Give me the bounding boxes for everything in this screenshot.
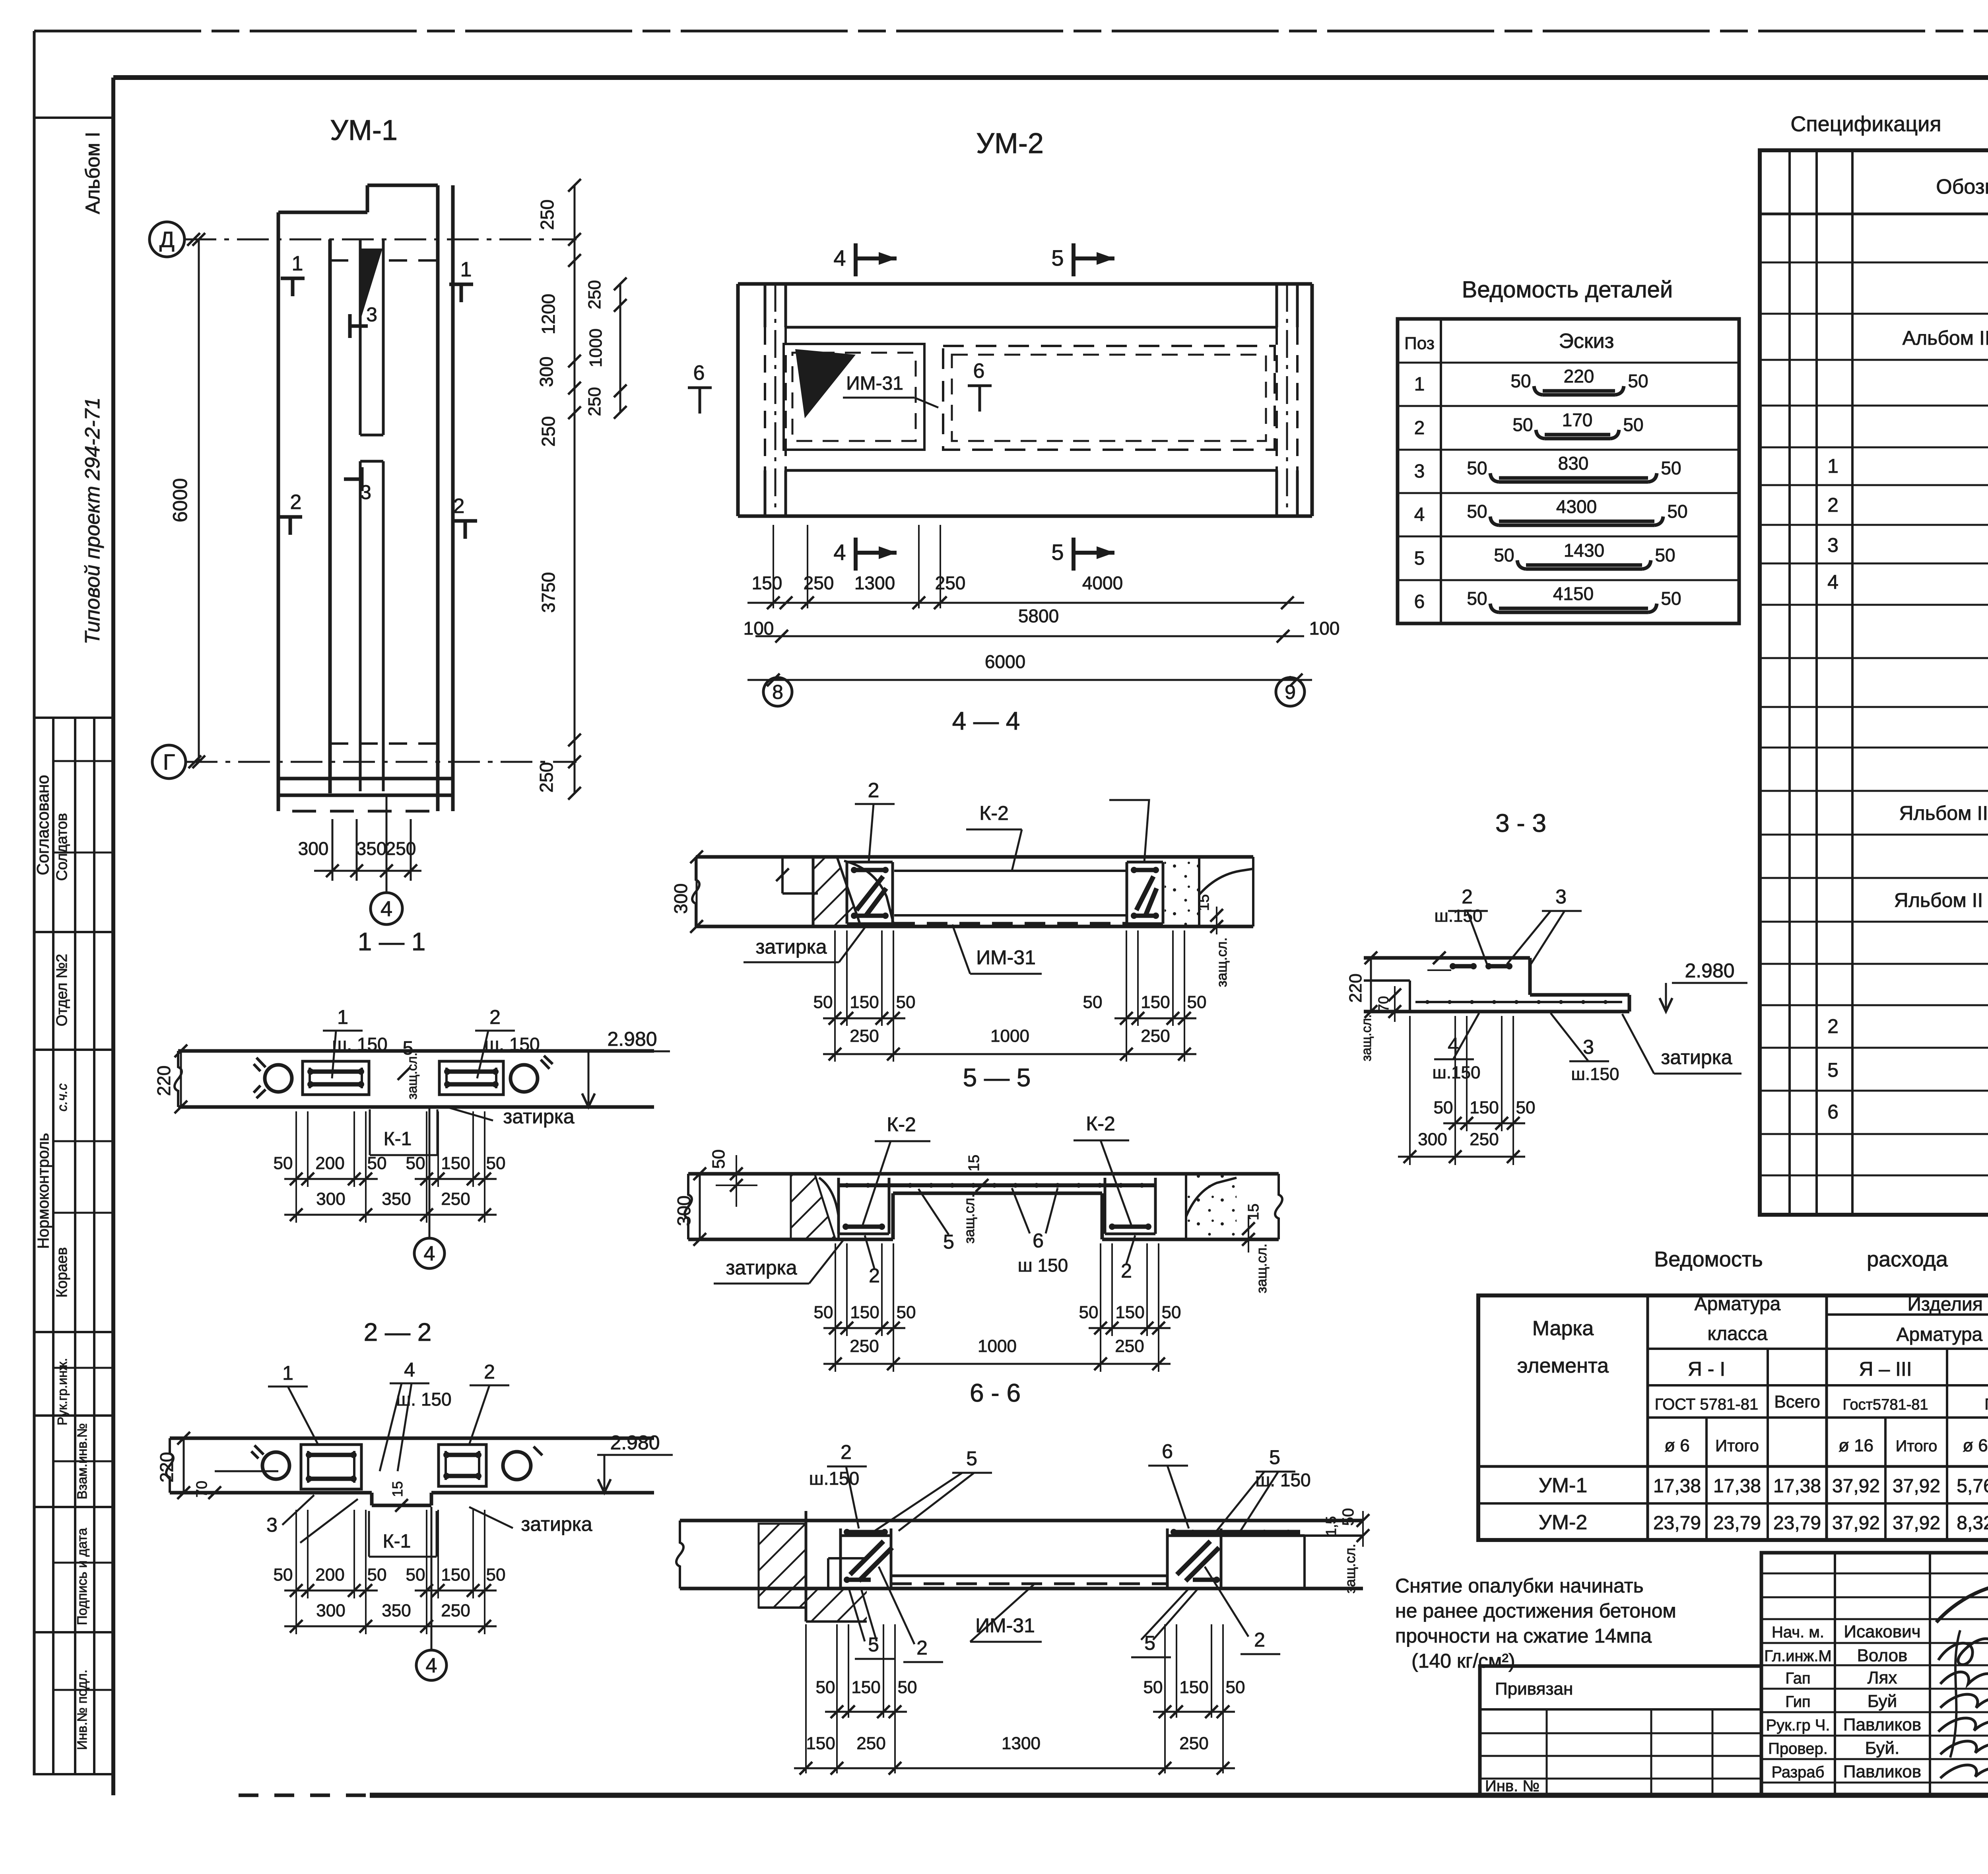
svg-text:затирка: затирка: [726, 1256, 797, 1279]
svg-text:защ.сл.: защ.сл.: [1213, 937, 1230, 987]
svg-text:15: 15: [389, 1481, 406, 1497]
svg-text:50: 50: [897, 1303, 916, 1322]
section 3-3 labels top: [1435, 886, 1582, 964]
svg-text:250: 250: [441, 1189, 470, 1209]
plan УМ-1 axis bubble 4: [371, 795, 402, 924]
svg-text:1000: 1000: [990, 1026, 1029, 1046]
section 1-1 cage K-1 left: [303, 1061, 369, 1095]
svg-text:К-2: К-2: [979, 802, 1009, 824]
svg-text:4150: 4150: [1553, 583, 1594, 604]
svg-text:2: 2: [1827, 1015, 1839, 1037]
svg-text:УМ-1: УМ-1: [330, 115, 398, 146]
svg-text:Солдатов: Солдатов: [54, 813, 70, 881]
section 2-2 slab: [166, 1438, 654, 1505]
section 1-1 labels 1 2 ш.150: [323, 1006, 540, 1078]
svg-text:1: 1: [1827, 455, 1839, 477]
svg-text:50: 50: [814, 1303, 833, 1322]
svg-text:Гл.инж.М: Гл.инж.М: [1764, 1647, 1832, 1665]
svg-text:150: 150: [1470, 1098, 1499, 1117]
svg-text:50: 50: [898, 1678, 917, 1697]
ведомость деталей row 2: [1414, 410, 1644, 439]
svg-text:Яльбом II , лист КМИЗ: Яльбом II , лист КМИЗ: [1899, 802, 1988, 824]
svg-text:4: 4: [833, 245, 846, 270]
section 1-1 axis bubble 4: [414, 1107, 445, 1268]
section 1-1 right void circle: [511, 1056, 553, 1092]
plan УМ-2 section mark 5 bottom: [1051, 538, 1114, 571]
svg-text:Буй: Буй: [1868, 1691, 1897, 1711]
svg-text:Инв.№ подл.: Инв.№ подл.: [75, 1670, 90, 1750]
svg-text:Обозначение: Обозначение: [1936, 175, 1988, 198]
plan УМ-2 title: [976, 128, 1044, 159]
dimension 6000 left of plan УМ-1: [169, 233, 205, 768]
svg-text:50: 50: [1467, 501, 1487, 522]
svg-text:6: 6: [693, 361, 705, 385]
section 1-1 label 5 защ.сл.: [398, 1038, 420, 1099]
section 5-5 dim 300 left: [674, 1167, 706, 1246]
section 1-1 slab: [175, 1051, 654, 1107]
ведомость деталей row 6: [1414, 583, 1681, 612]
svg-text:300: 300: [316, 1601, 345, 1620]
svg-text:5: 5: [1414, 548, 1425, 569]
section 4-4 left wall hatched: [813, 857, 894, 926]
plan УМ-2 opening right dashed: [943, 346, 1275, 450]
svg-text:6: 6: [1162, 1440, 1173, 1462]
svg-text:Подпись и дата: Подпись и дата: [75, 1528, 90, 1625]
svg-text:2: 2: [290, 491, 302, 514]
section 6-6 slab outline: [676, 1521, 1363, 1589]
svg-text:Д: Д: [159, 227, 175, 252]
svg-text:23,79: 23,79: [1773, 1513, 1821, 1534]
svg-text:ш.150: ш.150: [1435, 906, 1483, 926]
left margin column boxes: [34, 118, 113, 1774]
svg-text:Инв. №: Инв. №: [1485, 1777, 1540, 1795]
ведомость деталей row 4: [1414, 496, 1688, 525]
section 5-5 cage right: [1105, 1178, 1155, 1234]
svg-text:17,38: 17,38: [1713, 1476, 1761, 1497]
svg-text:не ранее достижения бетоном: не ранее достижения бетоном: [1395, 1600, 1676, 1622]
plan УМ-2 section mark 4 bottom: [833, 538, 897, 571]
svg-text:300: 300: [1418, 1130, 1447, 1149]
svg-text:150: 150: [752, 573, 782, 593]
svg-text:50: 50: [274, 1565, 293, 1585]
спецификация row 20: [1827, 1058, 1988, 1082]
svg-text:ИМ-31: ИМ-31: [846, 373, 903, 394]
svg-text:8,32: 8,32: [1957, 1513, 1988, 1534]
svg-text:ш. 150: ш. 150: [396, 1389, 451, 1410]
svg-text:Марка: Марка: [1532, 1317, 1594, 1340]
svg-text:6 - 6: 6 - 6: [970, 1379, 1021, 1407]
section 6-6 cage left: [841, 1528, 892, 1587]
plan УМ-2 opening ИМ-31: [784, 344, 938, 450]
section 1-1 dimension chains: [274, 1111, 506, 1223]
svg-text:2: 2: [1462, 886, 1473, 908]
svg-text:Разраб: Разраб: [1772, 1763, 1825, 1781]
svg-text:Типовой проект 294-2-71: Типовой проект 294-2-71: [81, 397, 104, 644]
svg-text:2.980: 2.980: [607, 1028, 657, 1050]
svg-text:Гост 5781-81: Гост 5781-81: [1984, 1396, 1988, 1413]
svg-text:1: 1: [1414, 374, 1425, 395]
svg-text:защ.сл.: защ.сл.: [405, 1053, 420, 1099]
svg-text:50: 50: [1494, 545, 1514, 565]
left margin label Инв.№ подл.: [75, 1670, 90, 1750]
axis line Д: [184, 233, 577, 246]
plan УМ-2 bottom dimension chains: [744, 525, 1340, 686]
plan УМ-1 section mark 2 right: [453, 495, 477, 539]
section 4-4 cage right: [1127, 862, 1163, 924]
svg-text:220: 220: [153, 1066, 174, 1096]
section 5-5 cage left: [839, 1178, 889, 1234]
svg-text:2: 2: [1827, 494, 1839, 516]
section 1-1 label затирка: [449, 1105, 575, 1128]
section 4-4 label К-2: [966, 802, 1022, 871]
plan УМ-1 section mark 3 lower: [344, 467, 371, 503]
svg-text:1: 1: [282, 1362, 293, 1384]
section 4-4 right leader: [1109, 800, 1149, 862]
section 4-4 middle chords and ИМ-31 plate: [894, 871, 1127, 923]
svg-text:1300: 1300: [854, 573, 895, 593]
svg-text:Арматура класса: Арматура класса: [1897, 1324, 1988, 1345]
svg-text:150: 150: [1179, 1678, 1208, 1697]
svg-text:50: 50: [274, 1154, 293, 1173]
svg-text:с.ч.с: с.ч.с: [55, 1084, 70, 1112]
спецификация row 9: [1827, 571, 1988, 594]
section 6-6 labels top: [809, 1440, 1311, 1531]
svg-text:ш 150: ш 150: [1018, 1255, 1068, 1276]
svg-text:затирка: затирка: [1661, 1046, 1732, 1068]
svg-text:5: 5: [1827, 1059, 1839, 1081]
svg-text:50: 50: [1079, 1303, 1099, 1322]
svg-text:(140 кг/см²): (140 кг/см²): [1411, 1650, 1515, 1672]
спецификация row 3: [1903, 326, 1988, 350]
ведомость расхода стали grid: [1478, 1295, 1988, 1540]
plan УМ-1 central rib: [360, 239, 383, 791]
svg-text:Нормоконтроль: Нормоконтроль: [35, 1133, 52, 1249]
svg-text:ш.150: ш.150: [1571, 1064, 1619, 1084]
svg-text:Гап: Гап: [1785, 1670, 1810, 1687]
section 2-2 cage right: [439, 1445, 486, 1486]
plan УМ-1 bottom dimension chain 300 350 250: [298, 819, 421, 881]
title block привязан table: [1480, 1666, 1761, 1795]
svg-text:1430: 1430: [1564, 540, 1604, 561]
section 6-6 right edge dims: [1323, 1508, 1369, 1594]
plan УМ-1 title: [330, 115, 398, 146]
ведомость расхода стали row УМ-1: [1539, 1474, 1988, 1497]
section 5-5 left wall hatched: [791, 1174, 839, 1239]
section 1-1 label К-1: [370, 1109, 437, 1155]
svg-text:2: 2: [1414, 418, 1425, 439]
svg-text:4: 4: [381, 897, 392, 921]
svg-text:8: 8: [772, 681, 783, 703]
svg-text:250: 250: [536, 762, 557, 793]
section 5-5 title: [963, 1063, 1031, 1092]
svg-text:6: 6: [1414, 591, 1425, 612]
section 4-4 dimension chains below: [813, 930, 1207, 1062]
svg-text:70: 70: [1375, 996, 1392, 1012]
svg-text:250: 250: [441, 1601, 470, 1620]
svg-text:3750: 3750: [538, 572, 559, 613]
svg-text:17,38: 17,38: [1773, 1476, 1821, 1497]
svg-text:Альбом I: Альбом I: [82, 132, 104, 214]
svg-text:Нач. м.: Нач. м.: [1772, 1623, 1824, 1641]
svg-text:23,79: 23,79: [1713, 1513, 1761, 1534]
section 2-2 elevation 2.980: [597, 1431, 673, 1493]
svg-text:Провер.: Провер.: [1768, 1740, 1828, 1757]
svg-text:170: 170: [1562, 410, 1593, 430]
section 4-4 label ИМ-31: [952, 924, 1042, 974]
svg-text:ø 6: ø 6: [1963, 1436, 1988, 1455]
plan УМ-2 section mark 5 top: [1051, 243, 1114, 276]
svg-text:50: 50: [1623, 414, 1643, 435]
svg-text:250: 250: [850, 1336, 879, 1356]
left margin label Альбом I: [82, 132, 104, 214]
svg-text:5: 5: [868, 1633, 879, 1656]
ведомость расхода стали row УМ-2: [1539, 1511, 1988, 1534]
section 6-6 middle chords: [891, 1576, 1167, 1584]
svg-text:150: 150: [1115, 1303, 1144, 1322]
plan УМ-2 outline: [738, 284, 1312, 516]
svg-text:50: 50: [406, 1154, 425, 1173]
svg-text:6000: 6000: [169, 478, 191, 522]
svg-text:50: 50: [1226, 1678, 1245, 1697]
svg-text:5: 5: [1269, 1446, 1280, 1468]
plan УМ-2 wall hidden verticals: [765, 284, 1297, 516]
section 6-6 cage right: [1167, 1528, 1305, 1587]
svg-text:4: 4: [1414, 504, 1425, 525]
svg-text:защ.сл.: защ.сл.: [1253, 1243, 1270, 1293]
section 5-5 dim 50 top left: [709, 1150, 757, 1207]
ведомость деталей row 1: [1414, 366, 1648, 395]
axis line Г: [186, 755, 577, 768]
svg-text:К-2: К-2: [887, 1113, 916, 1136]
section 3-3 dimension chains below: [1398, 1016, 1535, 1165]
svg-text:150: 150: [441, 1154, 470, 1173]
svg-text:4: 4: [833, 540, 846, 565]
svg-text:50: 50: [813, 992, 833, 1012]
svg-text:защ.сл.: защ.сл.: [961, 1194, 977, 1243]
section 5-5 dimension chains below: [814, 1243, 1181, 1372]
plan УМ-2 left dimension chain 250 1000 250: [585, 278, 627, 419]
svg-text:50: 50: [1187, 992, 1207, 1012]
svg-text:Привязан: Привязан: [1495, 1679, 1573, 1699]
section 3-3 elevation 2.980: [1660, 959, 1747, 1012]
svg-text:50: 50: [1512, 414, 1533, 435]
section 2-2 title: [364, 1318, 432, 1346]
svg-text:ИМ-31: ИМ-31: [975, 1614, 1035, 1637]
section 6-6 left wall hatched: [759, 1511, 867, 1622]
svg-text:Ведомость деталей: Ведомость деталей: [1462, 277, 1673, 303]
svg-text:Я - I: Я - I: [1688, 1358, 1725, 1380]
svg-text:250: 250: [850, 1026, 879, 1046]
section 3-3 drawing: [1364, 952, 1629, 1012]
plan УМ-1 right dimension chain: [536, 179, 581, 800]
section 5-5 slab outline: [685, 1174, 1282, 1239]
svg-text:300: 300: [298, 838, 329, 859]
svg-text:50: 50: [486, 1565, 506, 1585]
section 3-3 labels bottom: [1433, 1013, 1741, 1084]
plan УМ-1 section mark 2 left: [278, 491, 302, 535]
svg-text:200: 200: [315, 1154, 344, 1173]
plan УМ-2 axis bubble 8: [763, 676, 792, 706]
svg-text:Арматура: Арматура: [1695, 1293, 1781, 1315]
svg-text:Поз: Поз: [1404, 334, 1435, 353]
title block signatures table: [1761, 1553, 1988, 1795]
section 5-5 label К-2 left: [863, 1113, 930, 1225]
svg-text:затирка: затирка: [521, 1513, 592, 1535]
section 5-5 labels 5 6 ш150: [918, 1188, 1068, 1276]
svg-text:50: 50: [1083, 992, 1103, 1012]
svg-text:37,92: 37,92: [1893, 1476, 1940, 1497]
спецификация title: [1790, 112, 1988, 136]
svg-text:4: 4: [1827, 571, 1839, 593]
svg-text:6000: 6000: [985, 651, 1025, 672]
section 5-5 label К-2 right: [1074, 1113, 1131, 1225]
svg-text:250: 250: [538, 416, 559, 447]
svg-text:Рук.гр Ч.: Рук.гр Ч.: [1766, 1717, 1830, 1734]
ведомость деталей header: [1404, 330, 1614, 353]
svg-text:3 - 3: 3 - 3: [1495, 809, 1546, 837]
section 4-4 adjacent slab edge left: [776, 857, 818, 893]
section 3-3 title: [1495, 809, 1546, 837]
svg-text:1,5: 1,5: [1323, 1516, 1339, 1536]
section 4-4 label 2: [855, 779, 895, 862]
title block signature scribbles: [1936, 1584, 1988, 1779]
svg-text:затирка: затирка: [503, 1105, 574, 1128]
svg-text:Я – III: Я – III: [1859, 1358, 1912, 1380]
svg-text:Всего: Всего: [1774, 1392, 1820, 1412]
svg-text:350: 350: [356, 838, 387, 859]
section 2-2 label 3: [266, 1495, 314, 1536]
svg-text:50: 50: [709, 1150, 728, 1169]
sheet outer border left: [33, 31, 36, 1775]
svg-text:17,38: 17,38: [1653, 1476, 1701, 1497]
section 4-4 label затирка: [744, 928, 865, 962]
svg-text:200: 200: [315, 1565, 344, 1585]
note снятие опалубки: [1395, 1575, 1676, 1672]
svg-text:5: 5: [1051, 540, 1064, 565]
svg-text:Взам.инв.№: Взам.инв.№: [75, 1423, 90, 1499]
plan УМ-1 section mark 3 upper: [350, 303, 377, 338]
svg-text:4: 4: [426, 1654, 437, 1677]
svg-text:100: 100: [1309, 618, 1340, 639]
plan УМ-2 axis bubble 9: [1276, 676, 1305, 706]
svg-text:3: 3: [1827, 534, 1839, 556]
svg-text:37,92: 37,92: [1832, 1513, 1880, 1534]
plan УМ-1 section mark 1 right: [449, 258, 473, 302]
left margin label Нормоконтроль: [35, 1084, 70, 1425]
svg-text:50: 50: [816, 1678, 835, 1697]
svg-text:50: 50: [1467, 588, 1487, 609]
svg-text:5800: 5800: [1018, 606, 1059, 626]
svg-text:УМ-2: УМ-2: [976, 128, 1044, 159]
svg-text:250: 250: [386, 838, 416, 859]
svg-text:К-1: К-1: [384, 1128, 412, 1150]
section 2-2 cage left: [301, 1445, 361, 1489]
section 2-2 axis bubble 4: [416, 1507, 447, 1680]
section 2-2 right void circle: [503, 1447, 542, 1480]
svg-text:4 — 4: 4 — 4: [952, 707, 1020, 735]
svg-text:50: 50: [367, 1565, 387, 1585]
svg-text:Итого: Итого: [1715, 1436, 1759, 1455]
svg-text:расхода: расхода: [1867, 1247, 1948, 1271]
svg-text:50: 50: [1143, 1678, 1163, 1697]
svg-text:1: 1: [292, 252, 303, 275]
svg-text:ø 6: ø 6: [1664, 1436, 1690, 1455]
спецификация row 16: [1894, 889, 1988, 912]
svg-text:1000: 1000: [586, 328, 606, 367]
svg-text:К-1: К-1: [383, 1531, 411, 1552]
svg-text:Ведомость: Ведомость: [1654, 1247, 1763, 1271]
svg-text:Рук.гр.инж.: Рук.гр.инж.: [55, 1358, 70, 1425]
section 5-5 protective layer label: [961, 1155, 988, 1244]
svg-text:220: 220: [1564, 366, 1594, 386]
svg-text:50: 50: [1510, 371, 1531, 391]
ведомость расхода стали title: [1654, 1247, 1988, 1271]
axis bubble Д: [149, 222, 184, 257]
svg-text:250: 250: [537, 200, 557, 230]
svg-text:Изделия арматурные: Изделия арматурные: [1907, 1294, 1988, 1315]
section 3-3 dims left: [1346, 952, 1401, 1061]
svg-text:1 — 1: 1 — 1: [358, 927, 426, 956]
svg-text:Согласовано: Согласовано: [33, 775, 52, 876]
svg-text:Павликов: Павликов: [1843, 1762, 1921, 1781]
спецификация table grid: [1760, 150, 1988, 1215]
ведомость деталей row 3: [1414, 453, 1681, 482]
svg-text:5,76: 5,76: [1957, 1476, 1988, 1497]
svg-text:Яльбом II , лист КМИ20: Яльбом II , лист КМИ20: [1894, 889, 1988, 911]
svg-text:1000: 1000: [978, 1336, 1017, 1356]
svg-text:Отдел №2: Отдел №2: [54, 954, 70, 1026]
section 6-6 dimension chains below: [794, 1624, 1245, 1775]
svg-text:К-2: К-2: [1086, 1113, 1115, 1135]
svg-text:3: 3: [266, 1514, 278, 1536]
svg-text:50: 50: [367, 1154, 387, 1173]
svg-text:50: 50: [1667, 501, 1687, 522]
svg-text:220: 220: [156, 1452, 177, 1483]
section 2-2 label затирка: [469, 1507, 592, 1535]
section 4-4 dim 300: [670, 851, 703, 933]
svg-text:250: 250: [1141, 1026, 1170, 1046]
section 4-4 slab outline: [692, 857, 1253, 926]
svg-text:4300: 4300: [1556, 496, 1597, 517]
svg-text:50: 50: [1628, 371, 1648, 391]
svg-text:2: 2: [841, 1441, 852, 1463]
svg-text:4: 4: [404, 1359, 415, 1381]
svg-text:УМ-1: УМ-1: [1539, 1474, 1588, 1497]
svg-text:ш.150: ш.150: [1433, 1063, 1481, 1082]
svg-text:Буй.: Буй.: [1865, 1738, 1900, 1758]
svg-text:150: 150: [806, 1734, 835, 1753]
svg-text:2: 2: [453, 495, 465, 518]
svg-text:3: 3: [360, 481, 371, 503]
спецификация header: [1936, 168, 1988, 209]
svg-text:прочности на сжатие 14мпа: прочности на сжатие 14мпа: [1395, 1625, 1652, 1647]
svg-text:250: 250: [585, 280, 604, 309]
svg-text:50: 50: [1661, 588, 1681, 609]
section 5-5 top rebar with stirrups: [839, 1183, 1155, 1188]
svg-text:150: 150: [851, 1678, 880, 1697]
svg-text:Павликов: Павликов: [1843, 1715, 1921, 1734]
section 2-2 left void circle: [251, 1445, 289, 1479]
svg-text:Снятие опалубки начинать: Снятие опалубки начинать: [1395, 1575, 1644, 1597]
svg-text:затирка: затирка: [755, 936, 827, 958]
svg-text:37,92: 37,92: [1832, 1476, 1880, 1497]
svg-text:300: 300: [674, 1196, 694, 1226]
ведомость расхода стали header texts: [1517, 1293, 1988, 1455]
plan УМ-2 section mark 4 top: [833, 243, 897, 276]
section 2-2 label К-1: [300, 1499, 437, 1557]
svg-text:50: 50: [1661, 458, 1681, 478]
svg-text:6: 6: [973, 359, 985, 383]
